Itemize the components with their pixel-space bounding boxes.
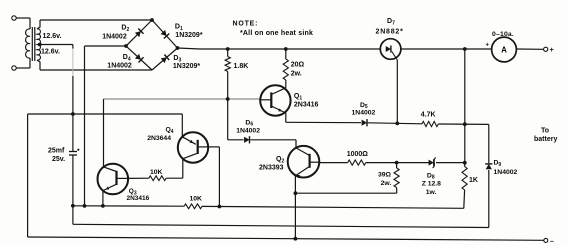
transistor Q1 base lead [261, 99, 272, 101]
wire [319, 162, 348, 164]
svg-text:1N4002: 1N4002 [494, 169, 518, 176]
resistor 1K [462, 163, 467, 209]
svg-text:1.8K: 1.8K [234, 63, 249, 70]
node bus1 bridge [83, 204, 87, 208]
node 465-123 [463, 122, 467, 126]
wire [285, 113, 287, 123]
svg-text:1N3209*: 1N3209* [175, 32, 203, 39]
wire [126, 20, 178, 70]
wire bus1b [202, 206, 464, 208]
wire [228, 99, 244, 140]
transistor Q2 collector [296, 148, 310, 156]
label 1.8K [234, 63, 249, 70]
label + polarity [486, 43, 490, 49]
svg-text:2N3393: 2N3393 [259, 164, 284, 171]
wire [396, 60, 398, 123]
node center tap [38, 43, 42, 47]
label Q3 value [127, 195, 150, 202]
capacitor C1 plates [69, 149, 80, 156]
wire [295, 192, 396, 194]
svg-text:Z 12.8: Z 12.8 [422, 180, 441, 187]
transistor Q1 circle [260, 85, 290, 115]
label D5 [360, 102, 368, 110]
transistor Q2 base lead [310, 161, 320, 163]
svg-text:20Ω: 20Ω [291, 61, 305, 68]
transformer core [32, 27, 35, 61]
svg-text:2w.: 2w. [381, 180, 392, 187]
label Q1 [294, 93, 302, 101]
label Q3 [129, 188, 137, 196]
node rail 1.8K [226, 47, 230, 51]
wire [208, 147, 219, 207]
label 0-10a [492, 31, 514, 38]
label D9 value [494, 169, 518, 176]
svg-text:25mf: 25mf [48, 148, 65, 155]
label 1000ohm [347, 151, 369, 158]
svg-text:+: + [486, 43, 490, 49]
svg-text:2N3644: 2N3644 [147, 135, 171, 142]
wire [166, 159, 183, 179]
transistor Q2 circle [288, 146, 320, 178]
label 2w 39 [381, 180, 392, 187]
svg-text:4.7K: 4.7K [421, 111, 436, 118]
diode D4 [135, 54, 144, 63]
transistor Q2 emitter [295, 166, 310, 178]
diode D1 [161, 30, 170, 39]
label 25mf [48, 148, 65, 155]
input terminal bottom [12, 66, 16, 70]
svg-text:2N882*: 2N882* [376, 29, 404, 36]
zener D8 [429, 158, 436, 168]
transistor Q2 bar [309, 154, 311, 168]
transistor Q3 emitter [103, 184, 116, 190]
wire [16, 58, 30, 68]
wire [103, 99, 105, 167]
ammeter M1 circle [492, 37, 517, 62]
label 1K [469, 177, 478, 184]
label 10K lower [190, 196, 203, 203]
transistor Q1 emitter [271, 106, 286, 113]
wire [401, 48, 492, 50]
node bridge top [150, 18, 154, 22]
wire [85, 46, 127, 206]
transistor Q4 bar [197, 140, 199, 154]
wire [516, 48, 543, 50]
wire [28, 113, 183, 115]
diode D9 [485, 164, 492, 169]
SCR D7 circle [380, 39, 401, 60]
wire [40, 45, 73, 152]
label D3 [173, 55, 181, 63]
transistor Q1 collector [271, 88, 286, 95]
label D7 value [376, 29, 404, 36]
transistor Q4 emitter [182, 137, 196, 145]
wire [72, 155, 74, 224]
resistor 1000ohm [348, 160, 366, 165]
transistor Q3 collector [104, 167, 117, 172]
wire [28, 237, 544, 240]
label Q2 value [259, 164, 284, 171]
label 25v [52, 156, 65, 163]
label - [550, 238, 554, 245]
label D8 value 2 [426, 189, 437, 196]
label 10K upper [150, 169, 163, 176]
svg-text:2N3416: 2N3416 [127, 195, 150, 202]
svg-text:1N4002: 1N4002 [236, 128, 260, 135]
wire [488, 124, 490, 163]
node bus1 Q3 [101, 204, 105, 208]
svg-text:2w.: 2w. [291, 70, 302, 77]
resistor 10K lower [184, 204, 202, 209]
wire [488, 170, 490, 228]
node bridge left [124, 44, 128, 48]
input terminal top [12, 16, 16, 20]
node rail 465 [463, 47, 467, 51]
wire [436, 162, 465, 164]
ammeter label A [501, 46, 507, 55]
wire [464, 49, 466, 163]
label To battery [534, 128, 557, 143]
output terminal - [544, 238, 548, 242]
wire [37, 60, 152, 70]
label + [550, 45, 555, 54]
label D4 value [107, 63, 132, 70]
svg-text:25v.: 25v. [52, 156, 65, 163]
label D1 [175, 24, 183, 32]
label D7 [387, 18, 395, 26]
label Q1 value [294, 101, 319, 108]
node 39ohm top [395, 161, 399, 165]
wire [27, 114, 29, 237]
wire [366, 162, 429, 164]
label D4 [123, 54, 131, 62]
node bridge right [176, 46, 180, 50]
diode D6 [244, 136, 249, 143]
node gate junction [395, 122, 399, 126]
resistor 39ohm [394, 163, 399, 194]
wire [128, 177, 149, 179]
resistor 1.8K [225, 49, 230, 99]
svg-text:10K: 10K [190, 196, 203, 203]
svg-text:1K: 1K [469, 177, 478, 184]
svg-text:1000Ω: 1000Ω [347, 151, 369, 158]
node 1.8K bottom [226, 97, 230, 101]
label D3 value [173, 63, 201, 70]
label D2 [121, 25, 129, 33]
svg-text:–: – [550, 238, 554, 245]
svg-text:10K: 10K [150, 169, 163, 176]
label Q4 value [147, 135, 171, 142]
svg-text:*All on one heat sink: *All on one heat sink [240, 30, 313, 37]
transistor Q4 base lead [198, 146, 208, 148]
transistor Q4 circle [178, 132, 208, 162]
label 20ohm [291, 61, 305, 68]
diode D3 [161, 55, 170, 64]
wire [102, 191, 104, 206]
svg-text:1N4002: 1N4002 [352, 110, 376, 117]
resistor 10K upper [149, 176, 166, 181]
node Q2 emitter bus3 [294, 237, 298, 241]
resistor 20ohm [283, 49, 288, 88]
node bus1 Q4 [218, 205, 222, 209]
svg-text:12.6v.: 12.6v. [43, 33, 62, 40]
wire [16, 18, 30, 29]
note text 2 [240, 30, 313, 37]
node 465-163 [463, 161, 467, 165]
wire [368, 123, 422, 124]
SCR D7 symbol [386, 46, 398, 61]
transformer T1 secondary winding [37, 29, 40, 60]
label D6 [245, 119, 253, 127]
label 12.6v bottom [41, 49, 60, 56]
wire [250, 140, 296, 148]
label D2 value [102, 34, 127, 41]
label D1 value [175, 32, 203, 39]
wire [286, 121, 361, 123]
label D8 value [422, 180, 441, 187]
transistor Q3 base lead [117, 177, 128, 179]
resistor 4.7K [422, 121, 438, 126]
transistor Q3 bar [115, 171, 117, 185]
svg-text:1N4002: 1N4002 [102, 34, 127, 41]
label D9 [494, 160, 502, 168]
wire [178, 48, 381, 49]
svg-text:1N4002: 1N4002 [107, 63, 132, 70]
label 4.7K [421, 111, 436, 118]
svg-text:+: + [550, 45, 555, 54]
svg-text:A: A [501, 46, 507, 55]
transistor Q1 bar [270, 92, 272, 108]
svg-text:1w.: 1w. [426, 189, 437, 196]
label D5 value [352, 110, 376, 117]
wire [37, 20, 152, 29]
transformer T1 primary winding [26, 29, 30, 58]
output terminal + [544, 47, 548, 51]
node box cap [71, 112, 75, 116]
svg-text:battery: battery [534, 136, 557, 143]
label Q4 [166, 127, 174, 135]
label D8 [427, 172, 435, 180]
diode D5 [362, 119, 367, 126]
svg-text:NOTE:: NOTE: [233, 21, 259, 28]
note text [233, 21, 259, 28]
label D6 value [236, 128, 260, 135]
transistor Q3 circle [98, 164, 129, 195]
node bus1 cap [71, 204, 75, 208]
wire bus1 [73, 205, 184, 207]
wire [438, 123, 489, 125]
wire [294, 176, 296, 239]
node rail 20ohm [284, 47, 288, 51]
svg-text:12.6v.: 12.6v. [41, 49, 60, 56]
svg-text:39Ω: 39Ω [378, 171, 392, 178]
label Q2 [276, 156, 284, 164]
label 39ohm [378, 171, 392, 178]
label 12.6v top [43, 33, 62, 40]
svg-text:To: To [541, 128, 549, 135]
label 2w [291, 70, 302, 77]
transistor Q4 collector [183, 153, 198, 159]
node Q2 emitter 39ohm [294, 191, 298, 195]
diode D2 [135, 29, 144, 38]
svg-text:1N3209*: 1N3209* [173, 63, 201, 70]
wire [104, 98, 261, 100]
wire [181, 114, 183, 137]
svg-text:2N3416: 2N3416 [294, 101, 319, 108]
wire bus2 [73, 224, 489, 227]
svg-text:0–10a.: 0–10a. [492, 31, 514, 38]
